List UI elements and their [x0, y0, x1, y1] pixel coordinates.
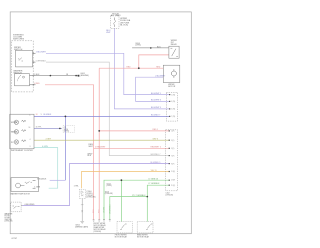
svg-text:7 (F): 7 (F)	[171, 155, 175, 157]
svg-text:MOTOR: MOTOR	[168, 86, 176, 88]
svg-text:18: 18	[36, 114, 38, 116]
svg-text:(1996-98): (1996-98)	[94, 231, 102, 233]
svg-text:LT GRN/BLK: LT GRN/BLK	[109, 203, 111, 214]
svg-text:6 BLU/RED: 6 BLU/RED	[25, 204, 35, 206]
svg-text:1 GRN: 1 GRN	[34, 187, 40, 189]
svg-text:7 (W): 7 (W)	[171, 116, 175, 118]
svg-text:1 YEL: 1 YEL	[74, 185, 79, 187]
svg-text:1: 1	[41, 114, 42, 116]
svg-text:4 GRN: 4 GRN	[42, 146, 48, 148]
svg-text:BLU/BLK 7: BLU/BLK 7	[151, 115, 160, 117]
svg-text:(1996-98): (1996-98)	[166, 195, 174, 197]
svg-text:BLU/WHT 1: BLU/WHT 1	[151, 93, 161, 95]
svg-text:(1996-98): (1996-98)	[105, 193, 113, 195]
svg-text:5 (F): 5 (F)	[171, 148, 175, 150]
svg-text:3: 3	[30, 146, 31, 148]
svg-text:02747: 02747	[12, 238, 18, 240]
svg-text:LT GRN: LT GRN	[104, 206, 106, 213]
svg-text:(ENGINE): (ENGINE)	[80, 75, 89, 77]
svg-text:ALL TIMES: ALL TIMES	[111, 14, 121, 17]
svg-text:LT GRN 13: LT GRN 13	[149, 179, 158, 181]
svg-text:WIPER: WIPER	[11, 122, 17, 124]
svg-text:3 BLU/BLK: 3 BLU/BLK	[37, 179, 47, 181]
svg-text:18: 18	[66, 74, 68, 76]
svg-text:16 PPL: 16 PPL	[36, 127, 42, 129]
svg-text:YEL 11: YEL 11	[151, 170, 157, 172]
svg-text:1 (F): 1 (F)	[171, 131, 175, 133]
svg-text:RED/WHT 5: RED/WHT 5	[151, 147, 161, 149]
svg-text:MOTOR RELAY: MOTOR RELAY	[115, 235, 128, 238]
svg-text:(1996-98): (1996-98)	[5, 221, 13, 223]
svg-text:INSTRUMENT CLUSTER: INSTRUMENT CLUSTER	[11, 150, 33, 152]
svg-text:1 (W): 1 (W)	[171, 94, 175, 96]
svg-text:WASH: WASH	[11, 131, 17, 134]
svg-text:16: 16	[29, 127, 31, 129]
svg-text:2 BLU/WHT: 2 BLU/WHT	[155, 76, 166, 78]
svg-text:(1995): (1995)	[64, 131, 70, 133]
svg-text:(BEHIND DASH): (BEHIND DASH)	[75, 225, 88, 228]
svg-text:RED: RED	[127, 67, 132, 69]
svg-text:5 (W): 5 (W)	[171, 109, 175, 111]
svg-text:INT: INT	[11, 142, 14, 144]
svg-text:1 BLK: 1 BLK	[34, 74, 40, 76]
svg-text:SWITCHES: SWITCHES	[13, 39, 25, 41]
svg-text:RED: RED	[156, 67, 161, 69]
svg-text:4 GRY: 4 GRY	[46, 139, 52, 141]
svg-text:RELAY: RELAY	[171, 43, 178, 46]
svg-text:4 RED: 4 RED	[34, 83, 40, 85]
svg-text:17 LT GRN/BLK: 17 LT GRN/BLK	[132, 195, 146, 197]
svg-text:2 BLU/WHT: 2 BLU/WHT	[36, 52, 47, 54]
svg-text:3 (F): 3 (F)	[171, 140, 175, 142]
svg-text:15 (F): 15 (F)	[171, 185, 176, 187]
svg-text:SWITCH: SWITCH	[13, 73, 22, 75]
svg-text:(1995): (1995)	[107, 185, 113, 187]
svg-text:MOTOR RELAY: MOTOR RELAY	[137, 235, 150, 238]
svg-text:9 (F): 9 (F)	[171, 163, 175, 165]
svg-text:3 (W): 3 (W)	[171, 101, 175, 103]
svg-text:11 (F): 11 (F)	[171, 171, 176, 173]
svg-text:1: 1	[30, 115, 31, 117]
svg-text:WHT/BLK 7: WHT/BLK 7	[151, 154, 161, 156]
svg-text:BLU/BLK: BLU/BLK	[44, 114, 53, 116]
svg-text:5 WHT/BLK: 5 WHT/BLK	[36, 61, 47, 63]
svg-text:(1996-98): (1996-98)	[86, 197, 95, 199]
svg-text:RED 1: RED 1	[153, 129, 159, 131]
svg-text:13 (F): 13 (F)	[171, 180, 176, 182]
svg-text:BLU/WHT 3: BLU/WHT 3	[151, 100, 161, 102]
svg-text:GRY 3: GRY 3	[153, 139, 159, 141]
svg-text:WASHER PUMP MOTOR: WASHER PUMP MOTOR	[11, 193, 31, 196]
svg-text:SWITCH: SWITCH	[14, 49, 23, 51]
svg-text:LT GRN/BLK: LT GRN/BLK	[149, 183, 161, 185]
svg-text:(1995): (1995)	[135, 45, 141, 47]
svg-text:BLOCK): BLOCK)	[120, 25, 128, 27]
svg-text:2 RED/WHT: 2 RED/WHT	[95, 146, 106, 148]
svg-text:BLU/RED 9: BLU/RED 9	[151, 162, 161, 164]
svg-text:4: 4	[30, 139, 31, 141]
svg-text:BLU/WHT 5: BLU/WHT 5	[151, 107, 161, 109]
